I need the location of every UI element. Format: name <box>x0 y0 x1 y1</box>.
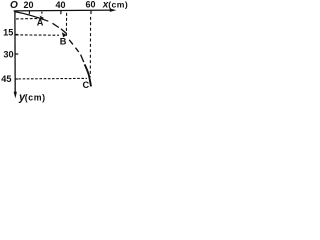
trajectory heavy stroke through C with tail <box>85 64 91 86</box>
svg-text:60: 60 <box>85 0 95 9</box>
trajectory dash B-C 2 <box>76 48 79 52</box>
point A marker <box>40 16 44 20</box>
dashed horizontal to C <box>18 77 87 80</box>
svg-text:A: A <box>37 18 44 28</box>
svg-text:15: 15 <box>3 27 13 37</box>
dashed horizontal to B <box>16 34 59 36</box>
x tick 20 <box>28 11 30 14</box>
svg-text:B: B <box>60 36 67 46</box>
y tick 30 <box>15 53 18 55</box>
x axis <box>14 9 112 12</box>
dashed vertical to A <box>41 12 43 16</box>
svg-text:45: 45 <box>1 74 11 84</box>
x tick 60 <box>90 11 92 15</box>
svg-text:(cm): (cm) <box>108 0 128 9</box>
y axis <box>14 11 16 93</box>
svg-text:(cm): (cm) <box>25 92 46 102</box>
x axis arrowhead <box>110 9 117 12</box>
y axis arrowhead <box>14 92 17 99</box>
trajectory dash B-C 3 <box>81 55 84 63</box>
background <box>0 0 128 105</box>
dashed horizontal to A <box>16 18 38 20</box>
dashed vertical to C <box>89 17 91 77</box>
y tick 45 <box>15 78 18 80</box>
svg-text:20: 20 <box>23 0 33 10</box>
x tick 40 <box>60 11 62 15</box>
svg-text:40: 40 <box>55 0 65 10</box>
trajectory dash A-B 2 <box>61 29 66 34</box>
svg-text:30: 30 <box>3 50 13 60</box>
point B marker <box>62 32 67 37</box>
trajectory dash A-B 1 <box>53 23 59 27</box>
trajectory dash B-C 1 <box>69 40 73 45</box>
trajectory solid segment O to A <box>15 12 48 22</box>
y tick 15 <box>15 34 18 36</box>
svg-text:C: C <box>83 80 90 90</box>
svg-text:O: O <box>10 0 18 11</box>
dashed vertical to B <box>65 13 67 36</box>
